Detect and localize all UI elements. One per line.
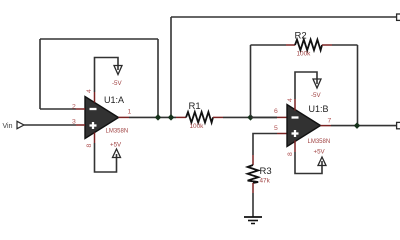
wire: U1:A output to R1 [129,116,176,118]
wire: R3 to ground [252,193,254,217]
wire: top output net horizontal [171,16,397,18]
power symbol: -5V arrow (U1:B) [313,79,321,88]
svg-text:47k: 47k [260,178,271,185]
svg-text:8: 8 [287,152,294,156]
wire: U1:A feedback left vertical [39,39,41,109]
wire: U1:A feedback right vertical [157,39,159,116]
wire: to U1:A pin 2 [40,108,76,110]
svg-text:R1: R1 [189,101,201,112]
wire: U1:B output to terminal [331,125,397,127]
svg-text:100k: 100k [190,123,205,130]
terminal: Vin input [17,121,24,128]
ground [244,217,262,224]
U1:B pin 4 stub [294,99,296,111]
svg-text:U1:B: U1:B [309,104,329,114]
svg-text:LM358N: LM358N [308,139,331,145]
resistor R2 body [295,40,322,51]
U1:B pin 6 stub [277,116,287,118]
U1:B pin 8 stub [294,141,296,153]
power symbol: -5V arrow (U1:A) [114,66,122,75]
U1:A pin 1 stub [119,116,130,118]
terminal: right output [397,122,400,128]
svg-text:8: 8 [86,144,93,148]
svg-text:U1:A: U1:A [104,95,124,105]
op-amp U1:B minus sign [292,116,299,118]
svg-text:6: 6 [274,108,278,115]
op-amp U1:B body [287,105,321,147]
svg-text:100k: 100k [297,51,312,58]
svg-text:7: 7 [328,118,332,125]
svg-text:3: 3 [72,119,76,126]
wire: U1:A pin 8 to +5V [95,143,117,172]
U1:A pin 4 stub [94,92,96,103]
resistor R2 right stub [322,44,332,46]
resistor R3 body [248,165,259,183]
wire: Vin to U1:A pin 3 [24,124,76,126]
node: junction at top net tap [168,114,175,121]
node: junction output/R2 [354,122,361,129]
svg-text:5: 5 [274,125,278,132]
resistor R1 left stub [176,116,186,118]
op-amp U1:A plus sign [90,122,97,129]
svg-text:R3: R3 [260,166,272,177]
node: junction at feedback tap [155,114,162,121]
wire: U1:B pin 8 to +5V [295,152,322,174]
svg-text:4: 4 [86,89,93,93]
wire: R2 left horizontal [251,44,287,46]
resistor R3 top stub [252,155,254,165]
wire: top output net vertical drop [170,17,172,116]
U1:A pin 3 stub [76,124,85,126]
svg-text:R2: R2 [295,31,307,42]
resistor R1 right stub [213,116,223,118]
node: junction R1/R2/pin6 [247,114,254,121]
svg-text:1: 1 [128,109,132,116]
terminal: top-right output [397,14,400,20]
svg-text:+5V: +5V [314,149,326,156]
U1:B pin 5 stub [277,133,287,135]
resistor R1 body [186,112,213,123]
wire: R1 to node [223,116,277,118]
svg-text:4: 4 [287,98,294,102]
op-amp U1:A body [85,97,119,139]
U1:A pin 2 stub [76,108,85,110]
wire: U1:A feedback top [40,38,158,40]
wire: R2 right horizontal [332,44,358,46]
svg-text:LM358N: LM358N [106,129,129,135]
svg-text:Vin: Vin [3,123,13,130]
wire: U1:B pin 4 to -5V [295,72,317,99]
op-amp U1:A minus sign [90,108,97,110]
wire: R3 top to U1:B pin 5 [253,134,277,156]
wire: R2 right vertical to output node [357,45,359,124]
svg-text:+5V: +5V [110,142,122,149]
svg-text:-5V: -5V [112,80,123,87]
resistor R2 left stub [286,44,295,46]
op-amp U1:B plus sign [292,130,299,137]
wire: node to U1:B pin 6 [251,116,278,118]
U1:B pin 7 stub [321,125,332,127]
svg-text:-5V: -5V [311,92,322,99]
wire: U1:A pin 4 to -5V [95,58,119,93]
svg-text:2: 2 [72,104,76,111]
power symbol: +5V arrow (U1:A) [113,149,121,158]
wire: node up to R2 left [250,45,252,116]
power symbol: +5V arrow (U1:B) [318,157,326,166]
resistor R3 bottom stub [252,183,254,193]
U1:A pin 8 stub [94,133,96,144]
